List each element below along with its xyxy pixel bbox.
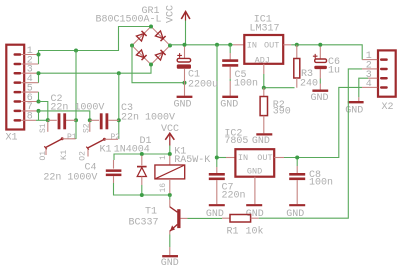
transistor T1 <box>170 195 181 255</box>
wire X1 pins 3-4 to bridge AC2 <box>39 65 152 83</box>
X2 pin 3 <box>366 70 388 81</box>
junction D1 anode <box>140 193 144 197</box>
wire IC2 OUT to X2 pin 4 <box>284 87 362 157</box>
svg-text:10k: 10k <box>246 226 264 238</box>
X1 pin 7 <box>14 102 38 113</box>
svg-text:8: 8 <box>27 112 33 123</box>
wire IC1 OUT rail to X2 pin 1 <box>291 45 362 60</box>
junction pin 7 <box>37 109 41 113</box>
junction IC2 IN / C7 <box>215 156 219 160</box>
wire pin 7 junction down to pin 8 row <box>38 111 40 120</box>
wire IC1 ADJ net <box>264 74 295 88</box>
svg-text:R1: R1 <box>227 227 239 238</box>
junction C3 left / S2 <box>88 118 92 122</box>
junction C2 right branch <box>74 49 78 53</box>
junction pins 1-2 <box>37 53 41 57</box>
wire P1 to C2 left junction <box>62 120 76 139</box>
svg-text:T1: T1 <box>145 206 157 217</box>
svg-text:100n: 100n <box>234 79 258 90</box>
wire pin 7 to C3 left <box>39 111 90 120</box>
svg-text:22n 1000V: 22n 1000V <box>50 103 104 114</box>
capacitor C5 <box>222 45 238 96</box>
connector X2 <box>378 50 396 112</box>
ground under X2 pin 3 <box>345 97 363 116</box>
node bridge AC2 bottom vertex <box>149 63 153 67</box>
wire R1 to X2 pin 2 <box>259 69 362 218</box>
wire riser to IC2 IN <box>216 45 218 158</box>
junction D1 cathode <box>140 152 144 156</box>
junction ADJ / R2 top <box>262 86 266 90</box>
svg-text:ADJ: ADJ <box>255 55 270 65</box>
capacitor C4 <box>106 160 122 183</box>
X1 pin 4 <box>14 74 39 85</box>
svg-text:GND: GND <box>247 166 262 176</box>
junction pins 3-4 <box>37 71 41 75</box>
X1 pin 5 <box>14 83 39 94</box>
junction C2 right <box>74 118 78 122</box>
svg-text:P2: P2 <box>111 133 121 142</box>
ground under T1 <box>161 256 179 269</box>
resistor R2 <box>260 88 267 134</box>
svg-text:P1: P1 <box>67 133 77 142</box>
svg-text:VCC: VCC <box>166 5 177 23</box>
wire bridge minus to C1 bottom and GND <box>132 46 185 83</box>
X1 pin 6 <box>14 93 38 104</box>
node bridge AC1 top vertex <box>149 25 153 29</box>
connector X1 <box>6 45 25 144</box>
svg-text:X1: X1 <box>6 132 18 143</box>
junction C6 top <box>318 43 322 47</box>
junction pin 6 <box>37 100 41 104</box>
svg-text:1u: 1u <box>328 66 340 77</box>
wire X2 pin 3 to ground <box>359 78 368 97</box>
svg-text:O2: O2 <box>79 151 88 161</box>
X1 pin 3 <box>14 65 38 76</box>
svg-text:7805: 7805 <box>224 136 248 147</box>
svg-text:OUT: OUT <box>257 153 272 163</box>
svg-text:GND: GND <box>174 100 192 111</box>
svg-text:IN: IN <box>238 153 248 163</box>
junction 7805 feed <box>215 43 219 47</box>
ground under C1 <box>174 83 193 111</box>
capacitor C7 <box>209 160 225 205</box>
ground under IC2 <box>246 205 264 220</box>
capacitor C2 <box>48 113 76 129</box>
svg-text:S1: S1 <box>39 123 48 133</box>
svg-text:IN: IN <box>247 40 257 50</box>
wire X1 pin 5 to pin 6 <box>38 92 40 101</box>
junction VCC / C1 plus <box>183 43 187 47</box>
supply VCC arrow top <box>181 12 190 45</box>
svg-text:1N4004: 1N4004 <box>114 144 150 155</box>
wire C2 right riser <box>75 51 77 121</box>
svg-text:RA5W-K: RA5W-K <box>174 155 210 166</box>
ground under C6 <box>311 91 329 104</box>
svg-text:OUT: OUT <box>264 40 279 50</box>
capacitor C3 <box>90 113 119 129</box>
svg-text:LM317: LM317 <box>250 24 280 35</box>
wire relay coil top rail <box>114 154 170 160</box>
svg-text:X2: X2 <box>382 102 394 113</box>
svg-text:22n 1000V: 22n 1000V <box>121 113 175 124</box>
X2 pin 1 <box>362 51 388 62</box>
svg-text:K1: K1 <box>100 144 112 155</box>
wire plus rail bridge to IC1 IN <box>170 44 233 46</box>
junction C1 bottom <box>183 81 187 85</box>
capacitor C1 <box>177 47 191 83</box>
X1 pin 8 <box>14 112 37 123</box>
ground under C8 <box>286 205 305 220</box>
svg-text:4: 4 <box>366 79 372 90</box>
svg-text:220n: 220n <box>222 190 246 201</box>
junction C3 right branch <box>117 71 121 75</box>
relay contact K1 S1-P1 <box>44 122 63 156</box>
X1 pin 1 <box>14 46 38 57</box>
X2 pin 4 <box>362 79 388 90</box>
wire pin 8 to C2 row <box>36 119 48 121</box>
svg-text:GND: GND <box>161 258 179 269</box>
capacitor C8 <box>289 160 305 205</box>
wire C3 right riser / relay contact P2 <box>118 73 120 139</box>
resistor R3 <box>294 45 300 88</box>
junction C8 top <box>295 156 299 160</box>
node bridge minus left vertex <box>130 44 134 48</box>
svg-text:GND: GND <box>252 136 270 147</box>
wire P2 to C3 right riser <box>104 138 118 140</box>
svg-text:GND: GND <box>220 100 238 111</box>
svg-text:B80C1500A-L: B80C1500A-L <box>96 15 162 26</box>
junction C5 / IC1 IN <box>228 43 232 47</box>
X1 pin 2 <box>14 55 39 66</box>
junction relay coil pin 1 <box>168 152 172 156</box>
svg-text:BC337: BC337 <box>129 218 159 229</box>
resistor R1 <box>222 215 259 223</box>
svg-text:O1: O1 <box>39 151 48 161</box>
junction C3 right <box>117 118 121 122</box>
regulator IC1 LM317 <box>233 35 291 74</box>
relay coil K1 <box>155 156 185 194</box>
wire X1 pins 1-2 to bridge AC1 <box>39 27 152 65</box>
capacitor C6 <box>313 47 327 90</box>
junction relay coil pin 16 / T1 collector <box>168 193 172 197</box>
svg-text:16: 16 <box>159 183 168 193</box>
svg-text:2200u: 2200u <box>188 80 218 91</box>
ground under C7 <box>206 205 225 220</box>
svg-text:S2: S2 <box>82 123 91 133</box>
junction R3 top <box>295 43 299 47</box>
supply VCC arrow relay <box>165 133 174 154</box>
svg-text:240: 240 <box>300 79 318 90</box>
svg-text:VCC: VCC <box>161 124 179 135</box>
node bridge plus right vertex <box>168 44 172 48</box>
svg-text:390: 390 <box>273 107 291 118</box>
svg-text:GND: GND <box>311 93 329 104</box>
diode D1 <box>137 156 147 194</box>
ground under C5 <box>220 97 238 111</box>
svg-text:K1: K1 <box>59 150 69 160</box>
ground under R2 <box>252 134 272 147</box>
svg-text:1: 1 <box>159 155 168 160</box>
junction C2 left / S1 <box>46 118 50 122</box>
X2 pin 2 <box>362 61 388 72</box>
wire T1 base to R1 <box>180 217 187 219</box>
regulator IC2 7805 <box>217 149 284 204</box>
wire pin 6 to C2 left <box>39 102 48 121</box>
svg-text:100n: 100n <box>309 178 333 189</box>
svg-text:22n 1000V: 22n 1000V <box>43 173 97 184</box>
relay contact K1 S2-P2 <box>86 122 106 157</box>
wire relay coil bottom rail <box>114 183 170 195</box>
bridge rectifier GR1 <box>132 27 170 65</box>
